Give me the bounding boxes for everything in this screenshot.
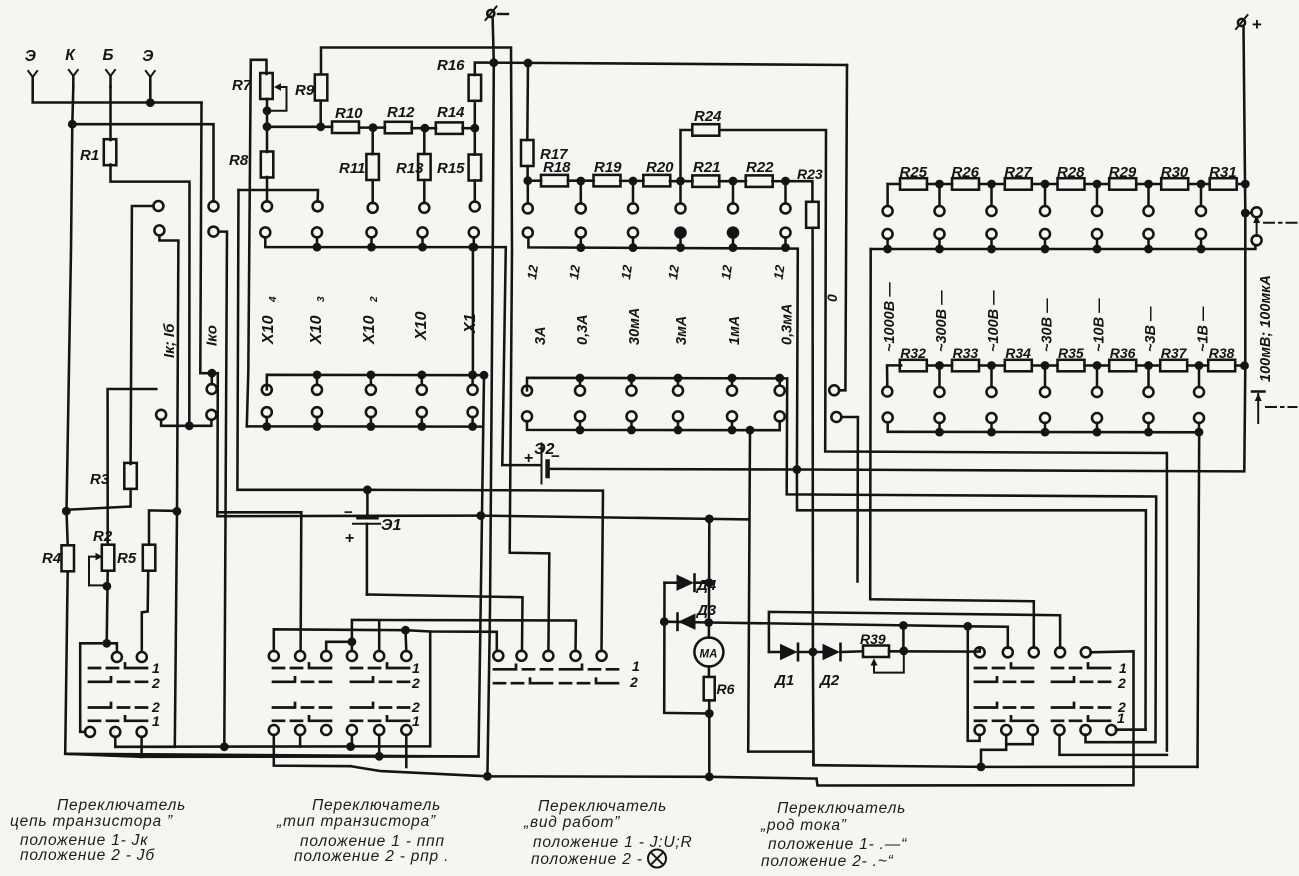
svg-text:„тип транзистора”: „тип транзистора” <box>276 813 436 830</box>
resistor R2 (potentiometer) <box>102 545 115 571</box>
resistor R6 <box>704 677 715 701</box>
contact block2 c3t <box>321 651 331 661</box>
contact circle V row2 x1045 <box>1040 229 1050 239</box>
contact block2 c3b <box>321 725 331 735</box>
block2 dash row1 L <box>273 664 331 669</box>
svg-text:Э1: Э1 <box>381 517 402 534</box>
svg-text:Д1: Д1 <box>773 672 794 689</box>
contact circle AC row2 x1045 <box>1040 413 1050 423</box>
svg-text:R25: R25 <box>900 164 928 181</box>
node minus/top bus <box>489 58 498 67</box>
node bottom rail minus <box>483 772 492 781</box>
contact circle Xlow row1 x317 <box>312 385 322 395</box>
svg-text:~3В —: ~3В — <box>1143 306 1159 352</box>
resistor R14 <box>436 122 463 133</box>
wire R4 bottom to block1 left <box>65 572 140 757</box>
node AC ladder x1199 <box>1195 361 1204 370</box>
node mAlow topbus x580 <box>576 374 585 383</box>
node Xlow topbus x370 <box>367 371 376 380</box>
node Xlow botbus x370 <box>367 422 376 431</box>
svg-text:12: 12 <box>771 263 788 280</box>
svg-text:1: 1 <box>632 658 640 674</box>
svg-text:„род тока”: „род тока” <box>760 817 847 834</box>
contact circle AC row1 x1199 <box>1194 387 1204 397</box>
contact block1 c2b <box>110 727 120 737</box>
wire minus rail down <box>487 17 493 776</box>
node Xlow topbus x472 <box>468 371 477 380</box>
node Xlow topbus right end <box>480 371 489 380</box>
meter MA <box>694 638 723 667</box>
resistor R37 <box>1160 360 1187 372</box>
resistor R21 <box>692 175 719 187</box>
wire R2-node feeds <box>80 643 107 732</box>
resistor R35 <box>1058 360 1085 372</box>
resistor R13 <box>418 154 431 180</box>
node Xlow botbus x421 <box>417 422 426 431</box>
node К / line y123 junction <box>68 120 77 129</box>
contact circle Xlow row2 x266 <box>262 407 272 417</box>
svg-text:12: 12 <box>718 263 735 280</box>
node AC ladder x991 <box>987 361 996 370</box>
contact circle X row2 x371 <box>367 227 377 237</box>
svg-text:1: 1 <box>1119 660 1127 676</box>
contact circle R15 bottom <box>470 202 480 212</box>
contact circle (213,232) <box>209 227 219 237</box>
contact circle Xlow row1 x472 <box>468 385 478 395</box>
contact block1 c1t <box>112 652 122 662</box>
node mA ladder x680 <box>676 177 685 186</box>
y517 line <box>217 512 749 519</box>
svg-text:„вид работ”: „вид работ” <box>523 814 620 831</box>
node Xlow topbus x421 <box>417 371 426 380</box>
wire x750 down to y751.6 over to D1D2 vertical <box>748 430 813 765</box>
node V ladder right end <box>1241 180 1250 189</box>
wire R32 left elbow from circle <box>887 365 901 386</box>
wire Д1 left up to y612 line to block4 c4t <box>769 612 1060 652</box>
wire top bus y62 <box>475 63 847 76</box>
node AC botbus x991 <box>987 428 996 437</box>
contact block3 c3 <box>543 651 553 661</box>
svg-text:R36: R36 <box>1110 345 1136 361</box>
svg-text:R12: R12 <box>387 104 415 121</box>
wire R7 bottom chain <box>266 99 269 152</box>
contact block2 c2b <box>295 725 305 735</box>
contact circle (213,206) <box>209 201 219 211</box>
range switch wiper 1 (current) <box>1245 212 1251 215</box>
block1 dash row 4 <box>89 716 147 721</box>
wire circle(159,230) down to rail y747 <box>115 235 178 747</box>
block2 dash row4 R <box>351 716 409 721</box>
block1 dash row 2 <box>89 677 147 682</box>
node mA bus x580 <box>576 243 585 252</box>
node D3-line/R39 <box>899 621 908 630</box>
svg-text:4: 4 <box>268 296 279 303</box>
svg-text:3А: 3А <box>533 326 549 345</box>
contact circle V row2 x991 <box>987 229 997 239</box>
svg-text:Д2: Д2 <box>818 672 840 689</box>
svg-text:R20: R20 <box>646 159 674 176</box>
contact circle V row1 x887 <box>883 206 893 216</box>
contact circle mAlow row1 x732 <box>727 386 737 396</box>
node X bus x422 <box>418 243 427 252</box>
node mA bus x680 <box>676 243 685 252</box>
wire R9 bottom <box>319 101 322 127</box>
block4 dash row1 R <box>1052 664 1110 669</box>
contact circle mAlow row2 x732 <box>727 411 737 421</box>
wire y190 jog (x238-x318) <box>239 190 319 202</box>
node D1/D2/R23 <box>809 648 818 657</box>
block2 dash row2 R <box>351 677 409 682</box>
contact block2 c4b <box>347 725 357 735</box>
contact circle AC row1 x1097 <box>1092 387 1102 397</box>
diode Д4 <box>665 581 677 584</box>
svg-text:1мА: 1мА <box>727 316 743 345</box>
rail B y756 <box>141 755 479 758</box>
svg-text:~1В —: ~1В — <box>1196 306 1212 352</box>
svg-text:положение 2 -: положение 2 - <box>531 851 643 868</box>
svg-text:+: + <box>524 450 533 467</box>
svg-text:R9: R9 <box>295 82 315 99</box>
contact circle AC row1 x1148 <box>1144 387 1154 397</box>
resistor R33 <box>952 360 979 372</box>
wire R11 top <box>371 128 374 154</box>
V circles row1 y211 <box>938 184 941 206</box>
node V bus x887 <box>883 245 892 254</box>
wire meter to R6 <box>708 667 711 677</box>
contact circle 0-range lower <box>831 412 841 422</box>
svg-text:R6: R6 <box>717 681 735 697</box>
node V bus x1097 <box>1093 245 1102 254</box>
contact circle Xlow row2 x317 <box>312 407 322 417</box>
contact circle 0-range upper <box>829 385 839 395</box>
contact circle V row2 x939 <box>935 229 945 239</box>
node R7/R8/line127 junction <box>263 122 272 131</box>
wire D1D2 node down <box>812 652 815 765</box>
wire D3 line to block4 c2t <box>664 622 1008 648</box>
svg-text:~1000В —: ~1000В — <box>882 282 898 352</box>
wire block2 c3/c4 link <box>326 642 352 651</box>
wire block2 c4b stub <box>351 735 354 747</box>
wire Э line vertical x201 down to elbow x217 <box>200 103 212 373</box>
contact circle AC row2 x939 <box>935 413 945 423</box>
svg-text:Iк; Iб: Iк; Iб <box>161 323 178 358</box>
wire R17 bottom <box>526 166 529 181</box>
node AC botbus x1148 <box>1144 428 1153 437</box>
wire c4 up to y620 line <box>352 620 576 651</box>
wire plus rail down <box>797 26 1245 471</box>
node mAlow topbus x631 <box>627 374 636 383</box>
contact circle mA row1 x580 <box>576 203 586 213</box>
resistor R26 <box>952 178 979 190</box>
block4 dash row1 L <box>975 664 1033 669</box>
contact circle (159,230) <box>154 225 164 235</box>
wire mA ladder segments <box>528 179 541 182</box>
svg-text:R11: R11 <box>339 160 365 177</box>
svg-text:0: 0 <box>824 294 840 302</box>
contact circle (161,415) <box>156 410 166 420</box>
node V bus x1148 <box>1144 245 1153 254</box>
contact circle Xlow row1 x370 <box>366 385 376 395</box>
contact circle AC row2 x991 <box>987 413 997 423</box>
svg-text:R31: R31 <box>1209 164 1237 181</box>
wire R5 bottom to block1 c2t <box>142 572 148 652</box>
node AC botbus x939 <box>935 428 944 437</box>
svg-text:Д4: Д4 <box>695 577 717 594</box>
node mAlow topbus x779 <box>775 374 784 383</box>
bottom rail y766 right part <box>814 765 1198 767</box>
node mA ladder x733 <box>729 177 738 186</box>
contact circle mA row1 x785 <box>781 203 791 213</box>
contact block1 c1b <box>85 727 95 737</box>
node mA ladder x580 <box>576 177 585 186</box>
node AC ladder x939 <box>935 361 944 370</box>
node R5/x178 junction <box>173 507 182 516</box>
wire block4 c4b path <box>1060 735 1167 755</box>
wiper dash-dot line <box>1264 222 1297 224</box>
svg-text:R21: R21 <box>693 159 721 176</box>
resistor R12 <box>385 122 412 134</box>
svg-text:R14: R14 <box>437 104 465 121</box>
node AC botbus x1199 <box>1195 428 1204 437</box>
svg-text:~300В —: ~300В — <box>934 290 950 352</box>
resistor R38 <box>1208 360 1235 372</box>
svg-text:12: 12 <box>566 263 583 280</box>
node railA x224 <box>220 742 229 751</box>
wire R2 bottom down to block1 <box>107 573 108 644</box>
svg-text:R28: R28 <box>1057 164 1085 181</box>
node block2 c4 junction <box>348 637 357 646</box>
contact block4 c1t <box>975 647 985 657</box>
svg-text:МА: МА <box>700 649 718 661</box>
svg-text:Х10: Х10 <box>308 315 325 345</box>
contact circle (318,206) <box>313 201 323 211</box>
node V bus x939 <box>935 245 944 254</box>
contact circle AC row1 x939 <box>935 387 945 397</box>
svg-text:1: 1 <box>412 660 420 676</box>
wire R39 output to block4 c1t <box>889 648 980 652</box>
contact circle V row2 x887 <box>883 229 893 239</box>
contact circle V row1 x1045 <box>1040 206 1050 216</box>
node AC ladder x1045 <box>1041 361 1050 370</box>
svg-text:R5: R5 <box>117 550 137 567</box>
wire R6 node down to bottom rail <box>708 714 711 777</box>
contact circle mA row2 x580 <box>576 228 586 238</box>
resistor R22 <box>746 175 773 187</box>
contact circle mAlow row2 x631 <box>627 411 637 421</box>
resistor R5 <box>143 545 156 571</box>
svg-text:Х10: Х10 <box>260 315 277 345</box>
contact block1 c3b <box>137 727 147 737</box>
node y517/x709 <box>705 515 714 524</box>
contact block2 c6t <box>401 651 411 661</box>
contact block4 c2b <box>1001 725 1011 735</box>
wiper circle lower <box>1252 235 1262 245</box>
range switch wiper 2 (voltage) <box>1252 390 1265 393</box>
svg-text:3мА: 3мА <box>674 316 690 345</box>
contact circle X row2 x422 <box>418 227 428 237</box>
contact block3 c1 <box>493 651 503 661</box>
contact circle X row2 x317 <box>312 227 322 237</box>
contact block4 c4t <box>1055 647 1065 657</box>
wire Б column to R1 <box>109 87 112 140</box>
resistor R36 <box>1109 360 1136 372</box>
svg-text:R35: R35 <box>1058 345 1084 361</box>
resistor R15 <box>469 155 482 181</box>
svg-text:R26: R26 <box>952 164 980 181</box>
wire R39 output up to D3 line <box>902 626 905 651</box>
node V bus x991 <box>987 245 996 254</box>
wire terminal Э1 stem to line <box>33 88 202 103</box>
resistor R25 <box>900 178 927 190</box>
node railA x350 <box>346 742 355 751</box>
svg-text:+: + <box>345 530 354 547</box>
svg-text:Д3: Д3 <box>695 602 717 619</box>
svg-text:положение 2- .~“: положение 2- .~“ <box>761 853 894 870</box>
svg-text:~30В —: ~30В — <box>1040 298 1056 352</box>
block4 dash row4 R <box>1052 716 1110 721</box>
node mAlow topbus x732 <box>728 374 737 383</box>
svg-text:R7: R7 <box>232 77 252 94</box>
node bottom rail x981 <box>977 763 986 772</box>
svg-text:100мВ; 100мкА: 100мВ; 100мкА <box>1258 275 1274 382</box>
contact circle Xlow row1 x421 <box>417 385 427 395</box>
X-section bus y247 <box>265 237 540 465</box>
block4 dash row2 L <box>975 677 1033 682</box>
contact circle mA row1 x527 <box>523 203 533 213</box>
node bottom rail x709 <box>705 772 714 781</box>
AC circles row1 y392 <box>938 366 941 388</box>
contact block4 c2t <box>1003 647 1013 657</box>
wire R15 bottom circle <box>474 181 477 202</box>
contact block4 c3t <box>1029 647 1039 657</box>
mA lower bottom bus <box>527 421 780 430</box>
diode Д3 <box>676 614 679 630</box>
wire R2 wiper to bottom <box>89 584 107 586</box>
svg-text:12: 12 <box>524 263 541 280</box>
resistor R3 <box>124 463 137 489</box>
contact circle mA row2 x633 <box>628 228 638 238</box>
wire diode bracket left <box>664 583 709 714</box>
contact circle mAlow row2 x580 <box>575 411 585 421</box>
wire R16 bottom to node <box>474 101 477 128</box>
svg-text:R23: R23 <box>797 166 823 182</box>
resistor R7 (potentiometer) <box>260 73 273 99</box>
node AC ladder x1148 <box>1144 361 1153 370</box>
svg-text:Э2: Э2 <box>534 441 555 458</box>
contact block4 c4b <box>1055 725 1065 735</box>
resistor R30 <box>1161 178 1188 190</box>
node X1 bus <box>469 243 478 252</box>
svg-text:R19: R19 <box>594 159 622 176</box>
svg-text:R29: R29 <box>1109 164 1137 181</box>
svg-text:R30: R30 <box>1161 164 1189 181</box>
wire c2b to rail A <box>114 737 117 747</box>
svg-text:+: + <box>1252 15 1262 34</box>
node X bus x473 <box>469 243 478 252</box>
node mAlow botbus to diode bridge <box>746 426 755 435</box>
block4 dash row4 L <box>975 716 1033 721</box>
svg-text:Х1: Х1 <box>462 313 479 334</box>
wire V bus left end down to y599 then block4 c3t <box>870 249 1034 648</box>
block2 dash row1 R <box>351 664 409 669</box>
contact block3 c5 <box>597 651 607 661</box>
contact circle V row1 x939 <box>935 206 945 216</box>
contact circle (211,389) <box>207 384 217 394</box>
node X bus x371 <box>367 243 376 252</box>
node mA ladder x785 <box>781 177 790 186</box>
wire R6 bottom <box>708 700 711 713</box>
block2 dash row2 L <box>273 677 331 682</box>
contact circle Xlow row1 x266 <box>262 385 272 395</box>
resistor R18 <box>541 175 568 187</box>
bottom long rail y767-777 <box>351 766 816 778</box>
svg-text:−: − <box>344 504 353 521</box>
block3 dash row1 R <box>560 665 618 670</box>
node mA bus x733 <box>729 243 738 252</box>
node mA bus x633 <box>629 243 638 252</box>
svg-text:R16: R16 <box>437 57 465 74</box>
contact block4 c1b <box>975 725 985 735</box>
svg-text:R34: R34 <box>1005 345 1031 361</box>
svg-text:R2: R2 <box>93 528 113 545</box>
contact circle Xlow row2 x472 <box>468 407 478 417</box>
wire К column (down to R3/R4 node and block1) <box>67 87 74 545</box>
contact block2 c4t <box>347 651 357 661</box>
svg-text:R1: R1 <box>80 147 99 164</box>
node Xlow botbus x472 <box>468 422 477 431</box>
node D3 left on bracket <box>660 617 669 626</box>
wire circle(161,389) left to R2 top <box>108 389 157 543</box>
contact circle AC row2 x1199 <box>1194 413 1204 423</box>
svg-text:R13: R13 <box>396 160 424 177</box>
wire block4 c2b path <box>981 735 1006 767</box>
node R2-bottom/block1 <box>102 639 111 648</box>
contact block4 c5b <box>1081 725 1091 735</box>
wire E1 bottom to block3 c2 <box>366 524 369 595</box>
lamp symbol <box>648 850 666 868</box>
svg-text:положение 2 - рпр .: положение 2 - рпр . <box>294 848 449 865</box>
svg-text:R22: R22 <box>746 159 774 176</box>
block2 dash row3 L <box>273 703 331 708</box>
wire 0-range lower right-down <box>841 417 858 582</box>
node E1 top <box>363 485 372 494</box>
X lower bottom bus <box>247 425 482 428</box>
wire R24 right to x826 down to y452 line <box>720 130 1167 751</box>
wire R8 bottom to circle <box>266 177 269 202</box>
contact circle V row1 x1148 <box>1144 206 1154 216</box>
svg-text:R3: R3 <box>90 471 110 488</box>
node Xlow topbus x472 <box>468 371 477 380</box>
svg-text:R38: R38 <box>1209 345 1235 361</box>
contact circle mAlow row1 x527 <box>522 386 532 396</box>
V bus y249 <box>871 245 1256 249</box>
contact circle Xlow row2 x370 <box>366 407 376 417</box>
wire X1 column bus247 to lower bus <box>472 247 475 375</box>
resistor R29 <box>1109 178 1136 190</box>
svg-text:Переключатель: Переключатель <box>777 800 906 817</box>
node R10/R11/R12 <box>369 123 378 132</box>
contact block4 c5t <box>1081 647 1091 657</box>
R24 and its wires <box>681 130 693 181</box>
svg-text:R15: R15 <box>437 160 465 177</box>
resistor R17 <box>521 140 534 166</box>
wire block2 c5b stub to rail B <box>378 735 381 757</box>
wiper circle upper <box>1252 207 1262 217</box>
svg-text:Переключатель: Переключатель <box>312 797 441 814</box>
wire R9 top to corner x511 <box>321 48 549 652</box>
svg-text:Э: Э <box>142 48 153 65</box>
node AC ladder x1097 <box>1093 361 1102 370</box>
